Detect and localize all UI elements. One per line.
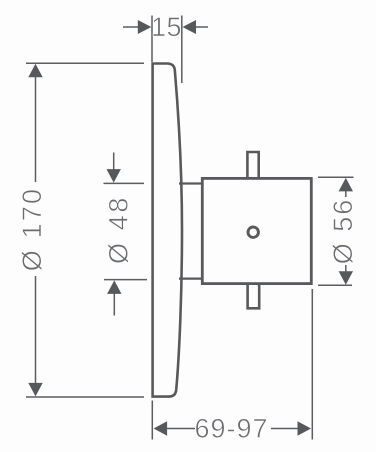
- svg-text:69-97: 69-97: [194, 413, 268, 443]
- svg-text:Ø 48: Ø 48: [104, 195, 134, 264]
- svg-text:Ø 56: Ø 56: [328, 198, 358, 265]
- svg-text:Ø 170: Ø 170: [17, 187, 47, 272]
- svg-text:15: 15: [151, 12, 182, 42]
